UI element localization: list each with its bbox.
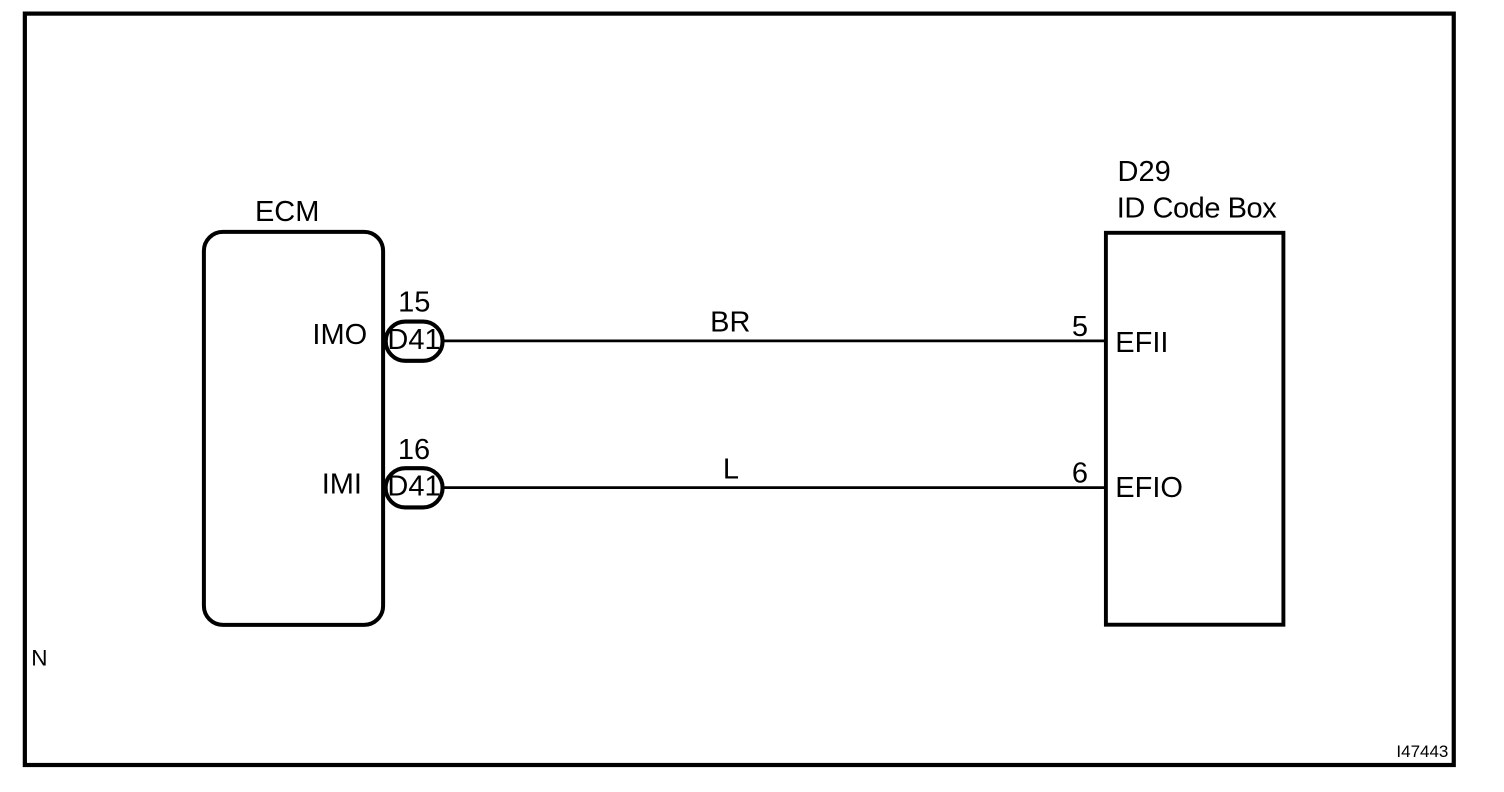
svg-text:5: 5 [1072,311,1088,343]
svg-text:L: L [723,454,739,486]
svg-text:IMO: IMO [312,319,367,351]
wire IMO to EFII [444,340,1106,343]
connector D41 pin 15 oval [386,322,443,361]
svg-text:EFII: EFII [1115,327,1168,359]
svg-text:ID Code Box: ID Code Box [1117,193,1277,225]
svg-text:D41: D41 [387,324,440,356]
svg-text:EFIO: EFIO [1115,472,1183,504]
wire IMI to EFIO [444,486,1106,489]
connector D41 pin 16 oval [386,468,443,507]
svg-text:ECM: ECM [255,196,319,228]
svg-text:D29: D29 [1118,156,1171,188]
svg-text:I47443: I47443 [1396,742,1448,761]
svg-text:BR: BR [710,307,750,339]
svg-text:N: N [31,646,47,671]
svg-text:6: 6 [1072,458,1088,490]
ID Code Box U1 (D29) [1106,233,1284,625]
svg-text:IMI: IMI [322,469,362,501]
svg-text:15: 15 [398,287,430,319]
svg-text:D41: D41 [387,471,440,503]
svg-text:16: 16 [398,434,430,466]
ECM box [204,232,383,625]
